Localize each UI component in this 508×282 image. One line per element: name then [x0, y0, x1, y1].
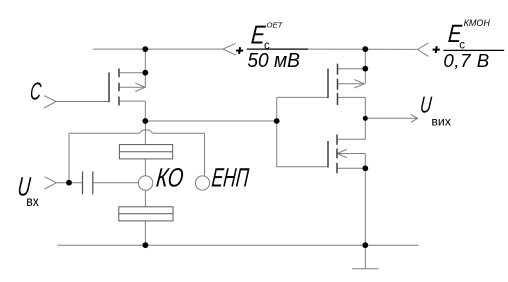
svg-text:C: C	[29, 79, 42, 105]
svg-text:50 мВ: 50 мВ	[247, 50, 300, 73]
svg-text:КО: КО	[155, 163, 185, 192]
svg-text:вих: вих	[431, 115, 451, 129]
svg-text:КМОН: КМОН	[464, 18, 491, 28]
svg-text:0,7 В: 0,7 В	[443, 50, 489, 71]
svg-text:ЕНП: ЕНП	[210, 163, 250, 192]
svg-text:ОЕТ: ОЕТ	[267, 21, 284, 30]
svg-text:вх: вх	[26, 193, 39, 209]
